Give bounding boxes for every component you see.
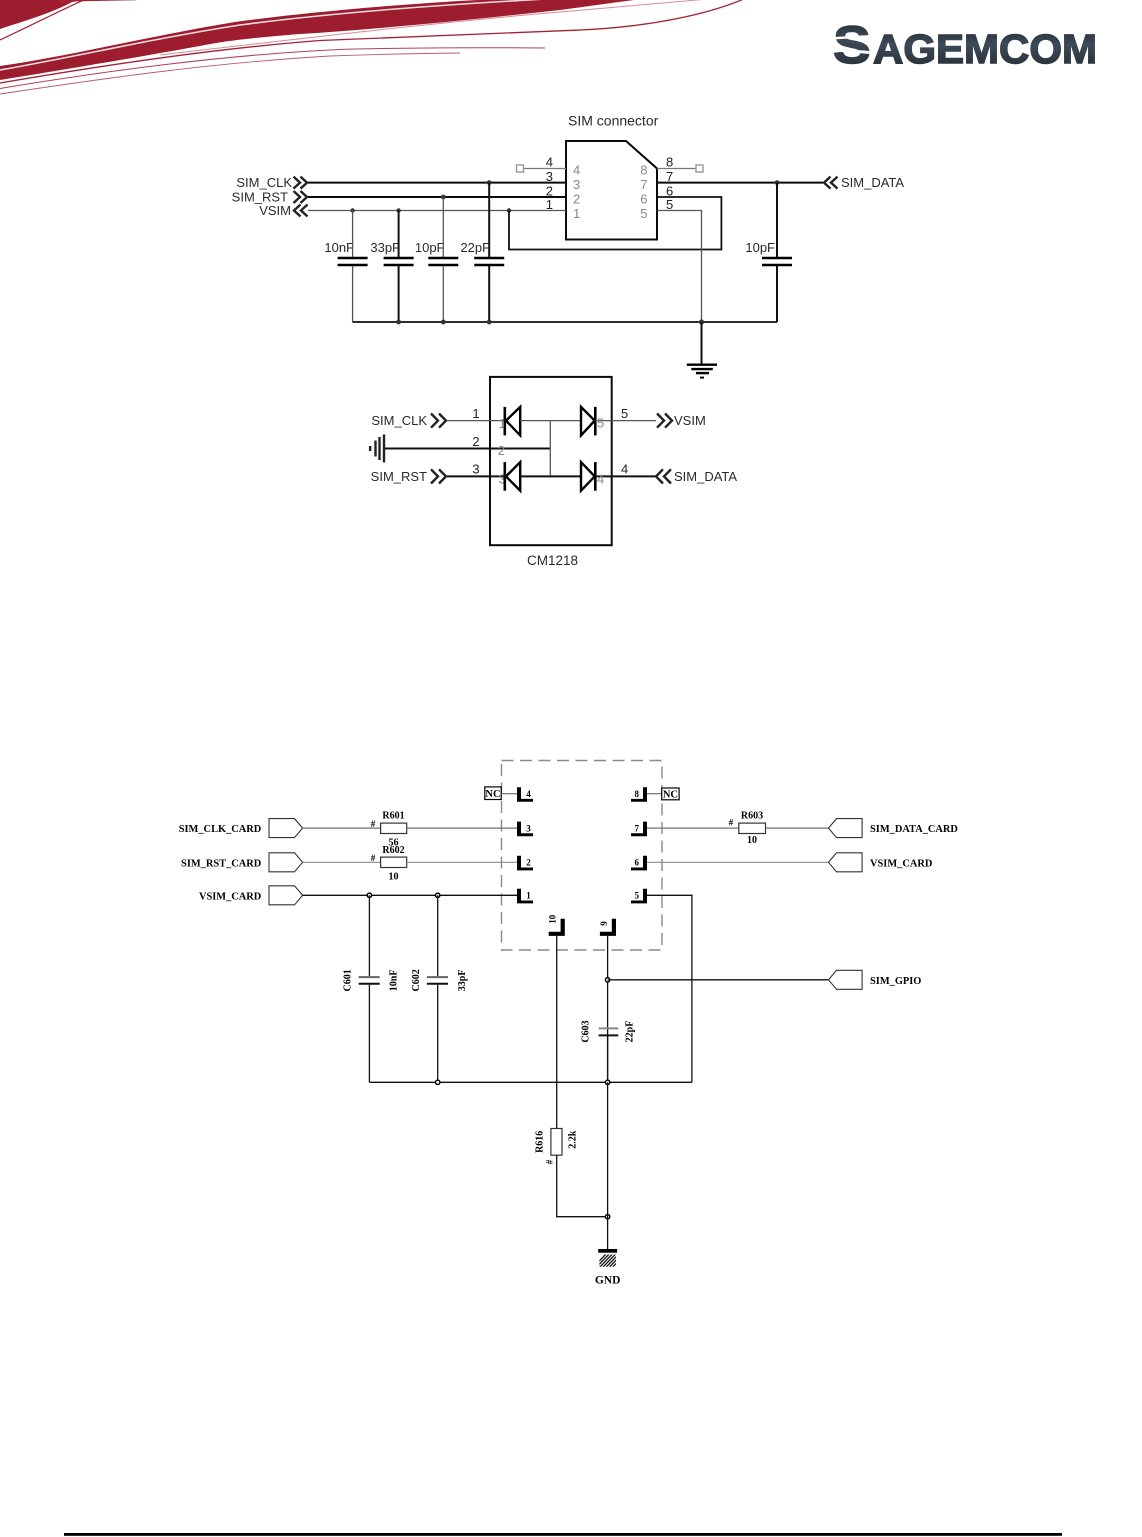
node SIM_RST_CARD tag xyxy=(181,853,303,872)
node SIM_CLK label xyxy=(371,413,446,428)
svg-text:2: 2 xyxy=(526,858,531,868)
footer rule xyxy=(64,1533,1062,1536)
ESD array U2 body xyxy=(490,377,612,545)
svg-text:22pF: 22pF xyxy=(625,1021,636,1043)
node SIM_RST label xyxy=(232,190,307,205)
svg-text:#: # xyxy=(545,1159,555,1164)
wire center rail xyxy=(549,421,551,477)
svg-text:3: 3 xyxy=(546,169,553,184)
wire pin 6 to VSIM net xyxy=(509,184,721,250)
ground xyxy=(687,322,717,378)
svg-text:8: 8 xyxy=(666,155,673,170)
node SIM_GPIO tag xyxy=(829,970,922,989)
svg-text:R602: R602 xyxy=(382,845,404,856)
wire tag to R601 xyxy=(303,827,381,829)
wire SIM_CLK to pin 3 xyxy=(308,169,580,192)
svg-text:VSIM: VSIM xyxy=(259,203,291,218)
svg-text:SIM_RST_CARD: SIM_RST_CARD xyxy=(181,858,261,869)
pin 3 xyxy=(517,822,533,837)
node SIM_DATA label xyxy=(824,175,904,190)
capacitor 10nF xyxy=(324,211,367,323)
svg-text:1: 1 xyxy=(573,206,580,221)
svg-text:SIM_DATA_CARD: SIM_DATA_CARD xyxy=(870,824,958,835)
wire tag to R602 xyxy=(303,861,381,863)
svg-text:2.2k: 2.2k xyxy=(568,1130,579,1149)
header swoosh band xyxy=(0,0,746,94)
svg-text:GND: GND xyxy=(595,1275,621,1287)
svg-text:4: 4 xyxy=(621,462,628,477)
wire pin 6 to tag xyxy=(647,861,829,863)
wire pin 5 to ground bus xyxy=(640,197,701,322)
svg-text:10nF: 10nF xyxy=(324,240,354,255)
capacitor C602 xyxy=(411,895,468,1082)
svg-text:10: 10 xyxy=(389,872,399,883)
svg-text:NC: NC xyxy=(663,790,678,801)
wire R603 to tag xyxy=(766,827,829,829)
svg-text:2: 2 xyxy=(498,443,505,458)
svg-text:2: 2 xyxy=(573,192,580,207)
svg-text:#: # xyxy=(371,819,376,829)
ground (pin 2) xyxy=(369,435,384,463)
svg-text:33pF: 33pF xyxy=(457,970,468,992)
svg-text:#: # xyxy=(371,853,376,863)
Sagemcom logo xyxy=(833,16,1097,75)
svg-text:SIM_CLK: SIM_CLK xyxy=(371,413,427,428)
node VSIM label xyxy=(259,203,307,218)
svg-text:5: 5 xyxy=(640,206,647,221)
wire pin 9 down to bus xyxy=(605,936,609,1082)
svg-text:VSIM_CARD: VSIM_CARD xyxy=(870,858,932,869)
diode D2 (top right) xyxy=(550,407,611,436)
node SIM_CLK_CARD tag xyxy=(179,819,303,838)
svg-text:6: 6 xyxy=(640,192,647,207)
node SIM_DATA_CARD tag xyxy=(829,819,958,838)
pin 8 xyxy=(631,787,647,802)
node SIM_DATA label xyxy=(656,469,737,484)
svg-text:CM1218: CM1218 xyxy=(527,553,578,568)
svg-text:1: 1 xyxy=(526,891,531,901)
capacitor 10pF xyxy=(415,197,458,322)
wire pin 1 xyxy=(447,406,506,431)
svg-text:R603: R603 xyxy=(741,811,763,822)
wire R616 to ground rail xyxy=(557,1155,610,1219)
svg-text:3: 3 xyxy=(526,823,531,833)
svg-text:SIM_CLK: SIM_CLK xyxy=(236,175,292,190)
svg-text:1: 1 xyxy=(472,406,479,421)
svg-text:R601: R601 xyxy=(382,811,404,822)
ground GND xyxy=(593,1249,625,1287)
diode D1 (top left) xyxy=(505,407,551,436)
svg-text:SIM_RST: SIM_RST xyxy=(371,469,427,484)
svg-text:7: 7 xyxy=(635,823,640,833)
wire pin 4 to SIM_DATA xyxy=(597,462,656,487)
wire NC to pin 4 xyxy=(501,793,517,795)
pin 4 stub (NC) xyxy=(517,155,581,178)
svg-text:10pF: 10pF xyxy=(415,240,445,255)
svg-text:5: 5 xyxy=(666,197,673,212)
pin 7 xyxy=(631,822,647,837)
pin 1 xyxy=(517,889,533,904)
svg-text:2: 2 xyxy=(472,434,479,449)
node VSIM label xyxy=(657,413,706,428)
svg-text:SIM_GPIO: SIM_GPIO xyxy=(870,976,921,987)
svg-text:7: 7 xyxy=(640,177,647,192)
wire pin 2 xyxy=(385,434,550,458)
diode D4 (bottom right) xyxy=(581,462,612,491)
svg-text:10: 10 xyxy=(548,914,558,924)
pin 9 xyxy=(599,919,616,936)
svg-text:S: S xyxy=(833,16,871,75)
svg-text:7: 7 xyxy=(666,169,673,184)
svg-text:VSIM_CARD: VSIM_CARD xyxy=(199,892,261,903)
bus wire (bottom) xyxy=(369,1080,692,1084)
NC flag (pin 4) xyxy=(485,787,501,800)
pin 5 xyxy=(631,889,647,904)
svg-text:5: 5 xyxy=(597,416,604,431)
svg-text:4: 4 xyxy=(573,163,580,178)
svg-text:8: 8 xyxy=(640,163,647,178)
svg-text:VSIM: VSIM xyxy=(674,413,706,428)
wire VSIM_CARD to pin 1 xyxy=(303,893,517,897)
capacitor 10pF (SIM_DATA) xyxy=(745,183,792,322)
svg-text:5: 5 xyxy=(621,406,628,421)
svg-text:4: 4 xyxy=(546,155,553,170)
wire pin 5 to VSIM xyxy=(597,406,656,431)
pin 10 xyxy=(548,914,565,936)
node SIM_RST label xyxy=(371,469,446,484)
wire pin 3 xyxy=(447,462,506,487)
connector J1 body xyxy=(566,141,657,240)
svg-text:8: 8 xyxy=(635,789,640,799)
capacitor 22pF xyxy=(460,183,504,322)
pin 2 xyxy=(517,856,533,871)
capacitor C603 xyxy=(581,1020,636,1082)
wire pin 8 to NC xyxy=(647,793,662,795)
svg-text:1: 1 xyxy=(546,197,553,212)
node SIM_CLK label xyxy=(236,175,307,190)
capacitor C601 xyxy=(343,895,400,1082)
resistor R616 xyxy=(535,1129,579,1165)
wire pin 7 to R603 xyxy=(647,827,739,829)
ground bus wire xyxy=(353,319,777,324)
resistor R602 xyxy=(371,845,407,883)
svg-text:NC: NC xyxy=(485,789,500,800)
svg-text:C603: C603 xyxy=(581,1020,592,1042)
svg-text:SIM_DATA: SIM_DATA xyxy=(674,469,737,484)
svg-text:#: # xyxy=(729,818,734,828)
connector X1 outline (dashed) xyxy=(502,761,663,951)
svg-text:5: 5 xyxy=(635,891,640,901)
svg-text:3: 3 xyxy=(472,462,479,477)
capacitor 33pF xyxy=(370,211,413,323)
U2 value CM1218 xyxy=(527,553,578,568)
svg-text:4: 4 xyxy=(526,789,531,799)
wire SIM_RST to pin 2 xyxy=(308,184,580,207)
wire down to GND xyxy=(607,1082,609,1249)
svg-text:10pF: 10pF xyxy=(745,240,775,255)
wire pin 5 down to bus xyxy=(647,895,692,1082)
pin 8 stub (NC) xyxy=(640,155,703,178)
svg-text:10nF: 10nF xyxy=(389,970,400,992)
NC flag (pin 8) xyxy=(662,788,679,801)
node VSIM_CARD tag xyxy=(199,886,303,905)
svg-text:9: 9 xyxy=(599,921,609,926)
pin 4 xyxy=(517,787,533,802)
svg-text:22pF: 22pF xyxy=(460,240,490,255)
wire R601 to pin 3 xyxy=(407,827,517,829)
svg-text:10: 10 xyxy=(747,835,757,846)
wire SIM_GPIO xyxy=(608,979,829,981)
svg-text:SIM connector: SIM connector xyxy=(568,113,659,129)
wire VSIM to pin 1 xyxy=(308,197,580,221)
svg-text:R616: R616 xyxy=(535,1131,546,1153)
svg-text:6: 6 xyxy=(635,858,640,868)
svg-text:3: 3 xyxy=(573,177,580,192)
wire pin 7 to SIM_DATA xyxy=(640,169,823,192)
svg-text:SIM_CLK_CARD: SIM_CLK_CARD xyxy=(179,824,262,835)
diode D3 (bottom left) xyxy=(505,462,581,491)
node VSIM_CARD tag (right) xyxy=(829,853,933,872)
pin 6 xyxy=(631,856,647,871)
svg-text:C602: C602 xyxy=(411,969,422,991)
resistor R601 xyxy=(371,811,407,849)
wire R602 to pin 2 xyxy=(407,861,517,863)
svg-text:SIM_DATA: SIM_DATA xyxy=(841,175,904,190)
svg-text:C601: C601 xyxy=(343,969,354,991)
svg-text:AGEMCOM: AGEMCOM xyxy=(873,26,1097,72)
svg-text:4: 4 xyxy=(597,472,604,487)
wire pin 10 down to R616 xyxy=(556,936,558,1129)
SIM connector title xyxy=(568,113,659,129)
svg-text:33pF: 33pF xyxy=(370,240,400,255)
resistor R603 xyxy=(729,811,766,847)
